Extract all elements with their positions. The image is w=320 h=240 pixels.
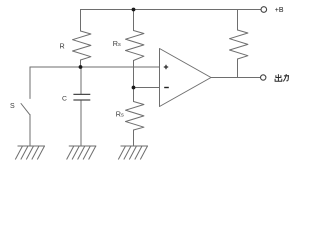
node junction dot (inverting input / Rs divider) — [132, 86, 136, 90]
op-amp U1 triangle — [160, 49, 212, 107]
wire R top lead — [80, 10, 82, 32]
wire capacitor top lead — [80, 67, 82, 94]
wire switch bottom lead — [29, 115, 31, 147]
ground (Rs2) — [118, 146, 148, 160]
label output (kanji 出力) drawn as strokes — [275, 74, 288, 81]
switch S blade — [21, 104, 30, 115]
svg-text:R: R — [60, 41, 65, 50]
resistor Rs1 — [126, 31, 144, 61]
ground (capacitor) — [67, 146, 97, 160]
wire load resistor top lead — [237, 10, 239, 31]
wire load resistor bottom lead — [237, 59, 239, 78]
wire output — [211, 77, 261, 79]
wire Rs1 bottom lead to inverting node — [133, 61, 135, 88]
op-amp minus input marking — [164, 87, 169, 89]
svg-text:C: C — [62, 95, 67, 102]
wire Rs2 top lead — [133, 88, 135, 102]
wire R bottom lead — [80, 60, 82, 67]
wire Rs1 top lead — [133, 10, 135, 31]
svg-text:Rs: Rs — [116, 109, 124, 118]
resistor Rs2 — [126, 102, 144, 131]
wire switch top lead — [29, 67, 31, 99]
resistor R — [73, 31, 91, 60]
capacitor C plates — [73, 94, 90, 100]
wire Rs2 bottom lead — [133, 130, 135, 146]
wire capacitor bottom lead — [80, 100, 82, 146]
svg-text:S: S — [10, 103, 15, 110]
op-amp plus input marking — [164, 65, 168, 69]
ground (switch) — [15, 146, 45, 160]
wire inverting input — [134, 87, 160, 89]
terminal output circle — [261, 75, 266, 80]
wire non-inverting input bus — [30, 66, 160, 68]
svg-text:Rs: Rs — [113, 39, 121, 48]
resistor RL (load to +B) — [230, 30, 248, 59]
wire top rail (+B) — [81, 9, 262, 11]
terminal +B circle — [261, 7, 267, 13]
node junction dot (bus / R / C) — [79, 65, 83, 69]
node junction dot (top rail / Rs1) — [132, 8, 136, 12]
svg-text:+B: +B — [275, 7, 284, 14]
